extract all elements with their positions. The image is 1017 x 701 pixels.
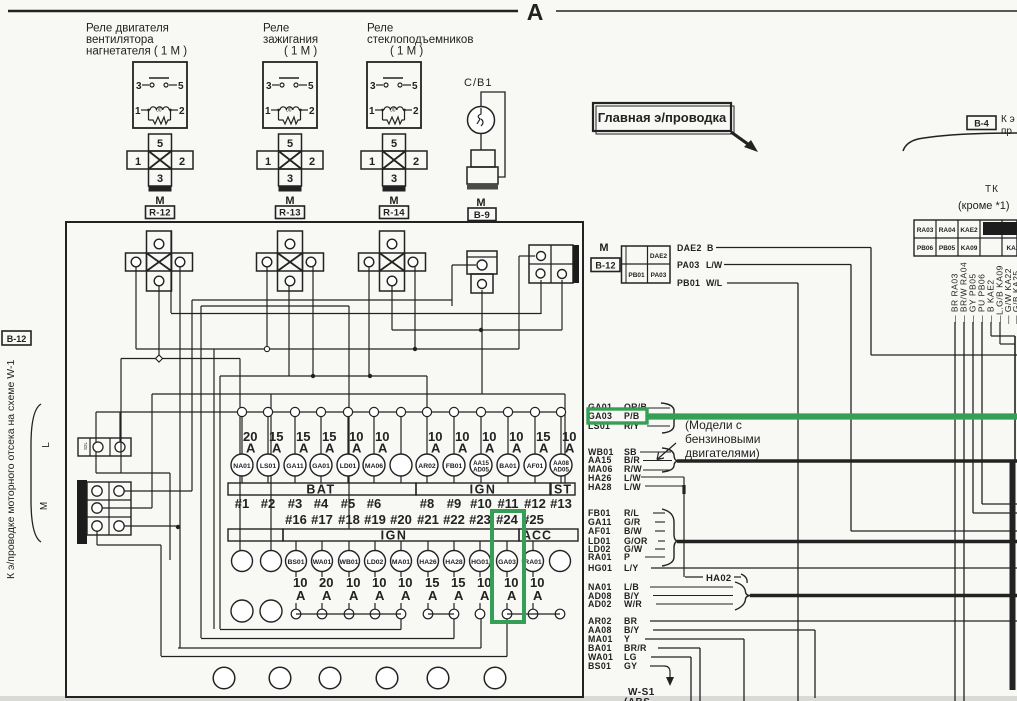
svg-text:MA01: MA01 xyxy=(392,559,410,566)
svg-text:R-14: R-14 xyxy=(383,208,405,219)
svg-text:P: P xyxy=(624,552,630,562)
svg-text:A: A xyxy=(539,441,549,456)
svg-text:#19: #19 xyxy=(364,512,386,527)
svg-text:HA02: HA02 xyxy=(706,573,732,584)
svg-text:GA11: GA11 xyxy=(286,463,304,470)
svg-text:A: A xyxy=(507,588,517,603)
svg-text:стеклоподъемников: стеклоподъемников xyxy=(367,34,473,46)
svg-text:1: 1 xyxy=(135,156,141,168)
svg-text:нагнетателя ( 1 М ): нагнетателя ( 1 М ) xyxy=(86,46,187,58)
svg-text:вентилятора: вентилятора xyxy=(86,34,154,46)
svg-text:A: A xyxy=(565,441,575,456)
svg-text:М: М xyxy=(599,242,608,254)
svg-text:00: 00 xyxy=(156,108,162,114)
svg-text:#12: #12 xyxy=(524,496,546,511)
svg-text:#2: #2 xyxy=(261,496,275,511)
svg-text:A: A xyxy=(512,441,522,456)
svg-text:PB01: PB01 xyxy=(677,278,700,288)
svg-text:Реле: Реле xyxy=(263,23,289,35)
svg-text:KAE2: KAE2 xyxy=(960,227,978,234)
svg-text:RA03: RA03 xyxy=(917,227,934,234)
svg-text:#10: #10 xyxy=(470,496,492,511)
svg-text:A: A xyxy=(485,441,495,456)
svg-text:00: 00 xyxy=(390,108,396,114)
svg-text:S2L: S2L xyxy=(83,442,88,451)
svg-text:AD02: AD02 xyxy=(588,599,612,609)
svg-text:AD05: AD05 xyxy=(553,467,569,474)
svg-text:A: A xyxy=(325,441,335,456)
svg-text:A: A xyxy=(299,441,309,456)
svg-text:1: 1 xyxy=(369,106,375,117)
svg-text:ТК: ТК xyxy=(985,184,999,195)
svg-text:B-12: B-12 xyxy=(595,261,615,271)
svg-text:#13: #13 xyxy=(550,496,572,511)
svg-text:(кроме *1): (кроме *1) xyxy=(958,200,1010,212)
svg-text:IGN: IGN xyxy=(470,483,497,497)
svg-text:1: 1 xyxy=(265,156,271,168)
svg-text:PA03: PA03 xyxy=(677,260,700,270)
svg-text:1: 1 xyxy=(265,106,271,117)
svg-text:R-13: R-13 xyxy=(279,208,301,219)
svg-text:HA28: HA28 xyxy=(588,482,612,492)
svg-text:бензиновыми: бензиновыми xyxy=(685,432,761,446)
svg-text:5: 5 xyxy=(391,138,397,150)
svg-text:PB01: PB01 xyxy=(628,272,645,279)
svg-text:5: 5 xyxy=(412,81,418,92)
svg-text:#6: #6 xyxy=(367,496,381,511)
svg-text:RA01: RA01 xyxy=(524,559,542,566)
svg-text:#3: #3 xyxy=(288,496,302,511)
svg-text:A: A xyxy=(527,0,544,25)
svg-text:Реле двигателя: Реле двигателя xyxy=(86,23,169,35)
svg-text:B/W: B/W xyxy=(624,526,642,536)
svg-text:3: 3 xyxy=(391,173,397,185)
svg-text:HA28: HA28 xyxy=(445,559,463,566)
svg-text:#11: #11 xyxy=(498,496,519,511)
svg-text:RA04: RA04 xyxy=(939,227,956,234)
svg-text:PB06: PB06 xyxy=(917,245,934,252)
svg-text:A: A xyxy=(431,441,441,456)
svg-text:B: B xyxy=(707,243,713,253)
svg-text:( 1 М ): ( 1 М ) xyxy=(284,46,317,58)
svg-text:W/L: W/L xyxy=(706,278,723,288)
svg-text:Главная э/проводка: Главная э/проводка xyxy=(598,110,727,125)
svg-text:R-12: R-12 xyxy=(149,208,171,219)
svg-text:B-9: B-9 xyxy=(474,210,490,221)
svg-text:2: 2 xyxy=(179,106,185,117)
svg-text:2: 2 xyxy=(413,156,419,168)
svg-text:A: A xyxy=(272,441,282,456)
svg-text:3: 3 xyxy=(287,173,293,185)
svg-text:A: A xyxy=(458,441,468,456)
svg-text:AD05: AD05 xyxy=(473,467,489,474)
svg-text:LD02: LD02 xyxy=(367,559,384,566)
svg-text:#9: #9 xyxy=(447,496,461,511)
svg-text:A: A xyxy=(454,588,464,603)
svg-text:BS01: BS01 xyxy=(588,661,611,671)
svg-text:ACC: ACC xyxy=(522,529,552,543)
svg-text:двигателями): двигателями) xyxy=(685,446,760,460)
svg-text:AR02: AR02 xyxy=(418,463,436,470)
svg-text:пр: пр xyxy=(1001,126,1012,137)
svg-text:2: 2 xyxy=(413,106,419,117)
svg-text:A: A xyxy=(296,588,306,603)
svg-text:HA26: HA26 xyxy=(419,559,437,566)
svg-text:B-12: B-12 xyxy=(7,334,27,344)
svg-text:1: 1 xyxy=(369,156,375,168)
svg-text:М: М xyxy=(155,195,164,207)
svg-text:GY: GY xyxy=(624,661,637,671)
svg-text:A: A xyxy=(533,588,543,603)
svg-text:AF01: AF01 xyxy=(527,463,544,470)
svg-text:GA03: GA03 xyxy=(588,411,612,421)
svg-text:A: A xyxy=(480,588,490,603)
svg-text:W/R: W/R xyxy=(624,599,642,609)
svg-text:(ABS: (ABS xyxy=(624,697,650,701)
svg-text:WB01: WB01 xyxy=(340,559,359,566)
svg-text:Реле: Реле xyxy=(367,23,393,35)
svg-text:#5: #5 xyxy=(341,496,355,511)
svg-text:PA03: PA03 xyxy=(651,272,667,279)
svg-text:L/W: L/W xyxy=(706,260,723,270)
svg-text:IGN: IGN xyxy=(381,529,408,543)
svg-text:М: М xyxy=(389,195,398,207)
svg-text:L: L xyxy=(41,442,52,448)
svg-text:00: 00 xyxy=(286,108,292,114)
svg-text:3: 3 xyxy=(266,81,272,92)
svg-text:#8: #8 xyxy=(420,496,434,511)
svg-text:GA01: GA01 xyxy=(312,463,330,470)
svg-text:#20: #20 xyxy=(390,512,412,527)
svg-text:К э: К э xyxy=(1001,114,1015,125)
svg-text:ST: ST xyxy=(554,483,572,497)
svg-text:5: 5 xyxy=(308,81,314,92)
svg-text:2: 2 xyxy=(179,156,185,168)
svg-text:P/B: P/B xyxy=(624,411,640,421)
svg-text:DAE2: DAE2 xyxy=(677,243,702,253)
svg-text:A: A xyxy=(322,588,332,603)
svg-text:5: 5 xyxy=(287,138,293,150)
svg-text:KA2: KA2 xyxy=(1006,245,1017,252)
svg-text:#22: #22 xyxy=(443,512,465,527)
svg-text:— G/B KA25: — G/B KA25 xyxy=(1011,270,1017,324)
svg-text:#18: #18 xyxy=(338,512,360,527)
svg-text:#24: #24 xyxy=(496,512,518,527)
svg-text:HG01: HG01 xyxy=(471,559,489,566)
svg-text:5: 5 xyxy=(157,138,163,150)
svg-text:3: 3 xyxy=(136,81,142,92)
svg-text:B-4: B-4 xyxy=(974,119,989,129)
svg-text:HG01: HG01 xyxy=(588,563,612,573)
svg-text:PB05: PB05 xyxy=(939,245,956,252)
svg-text:2: 2 xyxy=(309,106,315,117)
svg-text:FB01: FB01 xyxy=(446,463,463,470)
svg-text:LD01: LD01 xyxy=(340,463,357,470)
svg-text:L/W: L/W xyxy=(624,482,641,492)
svg-text:#1: #1 xyxy=(235,496,249,511)
svg-text:A: A xyxy=(401,588,411,603)
svg-text:#21: #21 xyxy=(417,512,439,527)
svg-text:LS01: LS01 xyxy=(260,463,276,470)
svg-text:#16: #16 xyxy=(285,512,307,527)
svg-text:(Модели с: (Модели с xyxy=(685,418,742,432)
svg-text:DAE2: DAE2 xyxy=(650,253,668,260)
svg-text:AF01: AF01 xyxy=(588,526,611,536)
svg-text:A: A xyxy=(246,441,256,456)
svg-text:М: М xyxy=(39,502,50,510)
svg-text:5: 5 xyxy=(178,81,184,92)
svg-text:BA01: BA01 xyxy=(499,463,517,470)
svg-text:MA06: MA06 xyxy=(365,463,383,470)
svg-text:A: A xyxy=(375,588,385,603)
svg-text:NA01: NA01 xyxy=(233,463,251,470)
svg-text:1: 1 xyxy=(135,106,141,117)
svg-text:KA09: KA09 xyxy=(961,245,978,252)
svg-text:К э/проводке моторного отсека: К э/проводке моторного отсека на схеме W… xyxy=(5,360,17,579)
svg-text:( 1 М ): ( 1 М ) xyxy=(390,46,423,58)
svg-text:A: A xyxy=(428,588,438,603)
svg-text:#23: #23 xyxy=(469,512,491,527)
svg-text:C/B1: C/B1 xyxy=(464,77,492,89)
svg-text:#4: #4 xyxy=(314,496,329,511)
svg-text:#17: #17 xyxy=(311,512,333,527)
svg-text:BS01: BS01 xyxy=(287,559,304,566)
svg-text:М: М xyxy=(285,195,294,207)
svg-text:A: A xyxy=(349,588,359,603)
svg-text:М: М xyxy=(476,197,485,209)
svg-text:зажигания: зажигания xyxy=(263,34,318,46)
svg-text:2: 2 xyxy=(309,156,315,168)
svg-text:WA01: WA01 xyxy=(313,559,332,566)
svg-text:GA03: GA03 xyxy=(498,559,516,566)
svg-text:RA01: RA01 xyxy=(588,552,612,562)
svg-text:A: A xyxy=(378,441,388,456)
svg-text:L/Y: L/Y xyxy=(624,563,639,573)
svg-text:3: 3 xyxy=(370,81,376,92)
svg-text:BAT: BAT xyxy=(306,483,335,497)
svg-text:A: A xyxy=(352,441,362,456)
svg-text:3: 3 xyxy=(157,173,163,185)
